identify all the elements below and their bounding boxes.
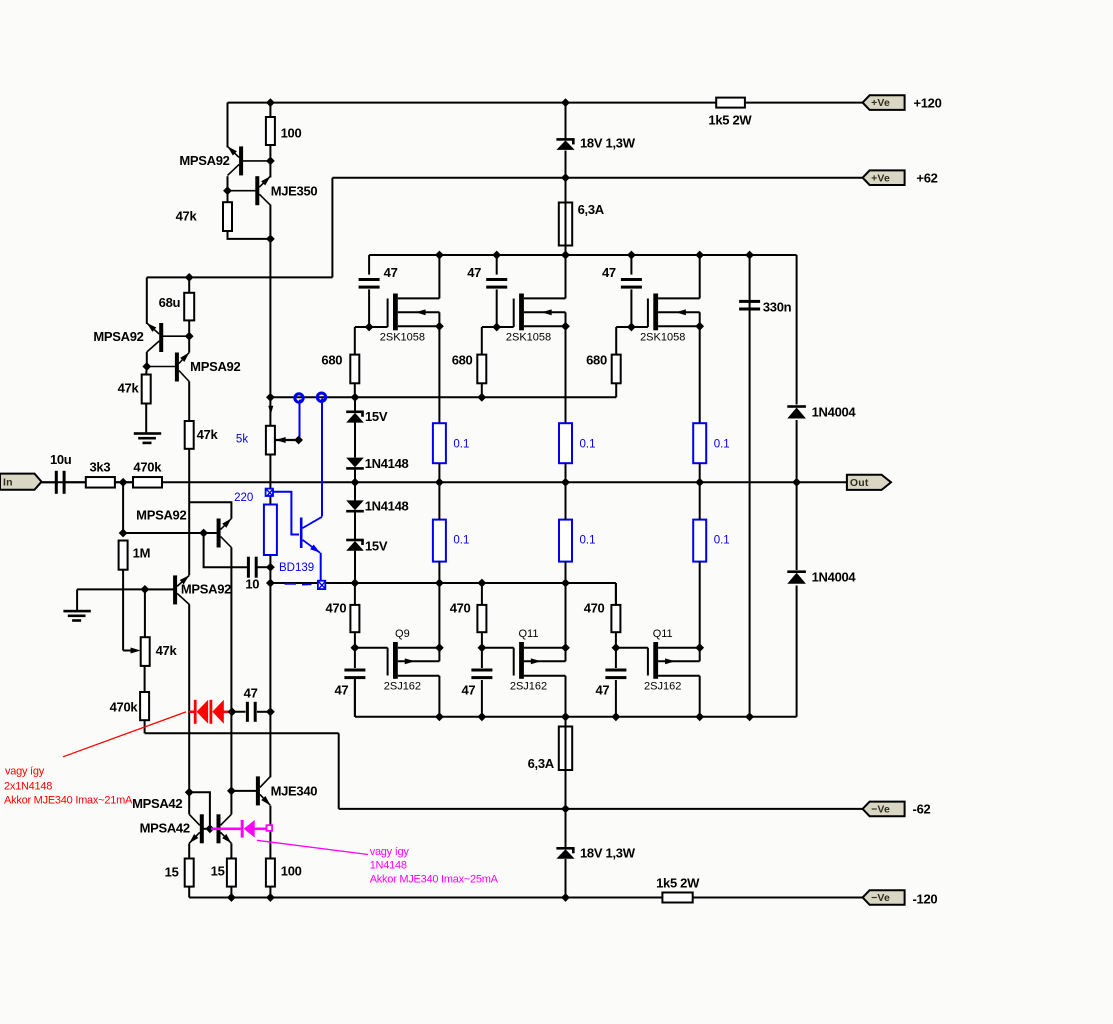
zener 15V lower [346,539,364,551]
svg-text:680: 680 [452,353,473,368]
label 470 no1 [326,601,347,616]
wire 68u top lead [188,277,190,292]
svg-text:MPSA92: MPSA92 [190,359,240,374]
node lower source junction 1 [435,643,444,652]
wire lower fuse to -62 rail [565,770,567,809]
label 15V upper [365,409,388,424]
wire +62 rail to fuse [565,178,567,203]
label MPSA92 Q3a [93,329,143,344]
label 1k5 2W upper [708,113,752,128]
red diode 1N4148 b [210,700,224,724]
red annotation line [63,712,186,757]
resistor 680 no2 [477,355,486,384]
svg-text:47: 47 [384,265,398,280]
svg-text:Akkor MJE340 Imax~25mA: Akkor MJE340 Imax~25mA [370,874,499,886]
svg-text:1N4148: 1N4148 [365,499,409,514]
wire 47k-B column to emitter Q4 [188,449,190,502]
label 47 lower 3 [595,683,609,698]
svg-text:5k: 5k [236,434,248,446]
wire drain up 1 [438,255,440,298]
svg-text:68u: 68u [159,295,181,310]
wire lower fuse lead top [565,717,567,727]
label Q ref 1 [395,628,410,640]
label 330n [763,300,792,315]
node bottom rail 100 [266,893,275,902]
svg-text:47k: 47k [156,643,178,658]
label +120 [913,96,941,111]
capacitor 47 gate lower 2 [471,669,492,680]
wire output-stage top rail [369,254,796,256]
svg-text:470: 470 [326,601,347,616]
label MPSA92 Q4 [136,508,186,523]
svg-text:MJE340: MJE340 [271,784,318,799]
wire bases tie bar [204,828,219,830]
resistor 3k3 [86,477,115,488]
wire cap to drain rail 1 [354,680,356,717]
svg-text:2SK1058: 2SK1058 [380,332,425,344]
fuse 6,3A lower [559,727,572,771]
svg-text:47: 47 [334,683,348,698]
magenta text vagy igy [370,846,410,858]
label 470 no3 [584,601,605,616]
label 47 speedup [244,686,258,701]
wire base branch to 10cap [204,533,248,567]
capacitor 47 gate lower 3 [605,669,626,680]
svg-text:0.1: 0.1 [453,535,469,547]
wire drain up 3 [699,255,701,298]
wire gate cap column 2 upper [496,255,498,275]
label 0.1 upper 3 [714,439,730,451]
svg-text:18V 1,3W: 18V 1,3W [580,136,636,151]
node Q3b base [142,362,151,371]
wire 1M to 47k-pot wiper drop [122,570,124,651]
resistor 0.1 upper 2 [559,423,572,463]
node Q1 base / MJE350 emitter [266,157,275,166]
node front-end rail 68u [185,273,194,282]
resistor 680 no1 [350,355,359,384]
label MJE350 [271,184,318,199]
wire 3k3 to node [115,481,133,483]
wire 100R column top [269,103,271,117]
transistor MPSA92 Q4 [217,516,234,547]
tag +Ve upper [863,95,905,110]
label 15 no1 [165,865,179,880]
transistor MPSA92 Q1 [225,144,270,175]
svg-text:+120: +120 [913,96,941,111]
node MJE350 base [223,186,232,195]
capacitor 330n [739,300,760,311]
svg-text:1N4004: 1N4004 [812,405,857,420]
label 10u [50,452,72,467]
wire MJE350 collector down [269,205,271,398]
svg-text:330n: 330n [763,300,792,315]
wire gate lead upper 3 [616,326,648,328]
label 2SJ162 no2 [510,681,547,693]
magenta text 1N4148 [370,860,407,872]
wire 0.1 lower to rail 3 [699,562,701,583]
wire 470 top lead 1 [354,583,356,605]
transistor 2SJ162 no2 [514,642,566,679]
wire 470 to gate lead 2 [481,632,483,648]
label 6,3A upper [578,202,605,217]
wire 0.1 to out line 1 [438,463,440,482]
node gate lead 1 upper [365,323,374,332]
label 1k5 2W lower [656,876,700,891]
ground symbol front-end [134,432,161,444]
node gate lower 3 [612,643,621,652]
wire cap to gate lead 3 [630,289,632,327]
label 680 no2 [452,353,473,368]
wire out to 0.1 lower 1 [438,482,440,519]
magenta port square [267,825,273,831]
resistor 1k5 2W lower [662,893,692,903]
transistor MPSA42 no1 [187,814,204,845]
wire diode chain 2 [354,423,356,458]
wire source down 1 [438,312,440,423]
svg-text:47: 47 [244,686,258,701]
svg-text:15: 15 [165,865,179,880]
wire gate to cap 1 lower [354,648,356,668]
wire 5k pot bottom to out line [269,455,271,489]
wire lower source up 2 [565,583,567,661]
svg-text:−Ve: −Ve [871,892,890,904]
node gate lower 1 [351,643,360,652]
resistor 47k C [142,375,151,404]
node base line left [119,529,128,538]
resistor 470 no2 [477,605,486,632]
svg-text:+Ve: +Ve [871,172,890,184]
label 470 no2 [450,601,471,616]
resistor 680 no3 [612,355,621,384]
svg-text:-62: -62 [913,802,931,817]
node 1N4004 out line [792,478,801,487]
svg-text:220: 220 [234,492,253,504]
wire 0.1 lower to rail 2 [565,562,567,583]
capacitor 10 compensation [247,557,258,578]
transistor MPSA92 Q5 [145,573,191,604]
svg-text:−Ve: −Ve [871,804,890,816]
node bases tie [206,824,215,833]
svg-text:15V: 15V [365,539,388,554]
wire collector Q4 down [230,548,232,712]
blue wire BD139 base [273,492,299,535]
node diode chain lower rail [351,579,360,588]
tag +Ve lower [863,170,905,185]
wire main out line [41,481,847,483]
node drain rail 3 [695,251,704,260]
node lower rail left [266,579,275,588]
svg-text:MPSA42: MPSA42 [132,796,182,811]
svg-text:vagy így: vagy így [370,846,410,858]
label MPSA92 Q1 [179,153,229,168]
wire collector column xD to MJE340 base node [230,712,232,791]
node 330n lower rail [745,712,754,721]
node lower drain rail 3 [695,712,704,721]
wire MPSA42-1 collector up [188,792,190,814]
label 47k A [176,209,198,224]
resistor 1k5 2W upper [716,98,745,108]
capacitor 47 gate lower 1 [344,669,365,680]
svg-text:2SJ162: 2SJ162 [384,681,421,693]
svg-text:100: 100 [281,864,302,879]
zener 18V lower [556,847,574,859]
wire source down 2 [565,312,567,423]
svg-text:10u: 10u [50,452,72,467]
blue blob 2 [317,393,325,402]
wire 1N4004 column mid1 [796,420,798,570]
red wire diode line [189,710,232,713]
node gate rail left [266,393,275,402]
svg-text:2x1N4148: 2x1N4148 [4,781,52,793]
wire 47k-A bottom to VAS column [228,231,271,239]
label 47k C [118,381,140,396]
capacitor 10u [55,471,66,494]
wire 47k-A column [227,176,229,202]
svg-text:47k: 47k [176,209,198,224]
label +62 [916,171,937,186]
node out line 2 [561,478,570,487]
svg-text:0.1: 0.1 [453,439,469,451]
label MPSA92 Q5 [181,582,231,597]
wire feedback line horizontal [145,732,339,734]
svg-text:0.1: 0.1 [580,439,596,451]
node gate lead 2 upper [492,323,501,332]
wire input node drop to base line [122,482,124,533]
wire 220 bottom to 10cap node [269,555,271,583]
svg-text:47: 47 [602,265,616,280]
wire cap to gate lead 2 [496,289,498,327]
svg-text:3k3: 3k3 [90,460,111,475]
node source junction 3 [695,322,704,331]
wire 5k pot top lead [269,397,271,426]
node source junction 2 [561,322,570,331]
node lower source junction 3 [695,643,704,652]
diode 1N4148 upper [346,458,364,470]
node -120 zener [561,893,570,902]
wire cap to drain rail 2 [481,680,483,717]
blue dashes on rail [285,583,312,586]
transistor 2SJ162 no3 [648,642,700,679]
label 470k input [133,460,162,475]
wire 220 resistor top lead [269,496,271,505]
wire +120 top rail [228,102,863,104]
node out line 1 [435,478,444,487]
wire VAS column to 47cap node [269,583,271,712]
node lower cap2 rail [478,712,487,721]
label 0.1 lower 2 [580,535,596,547]
wire 0.1 to out line 3 [699,463,701,482]
wire In tag to 10u [41,481,55,483]
node diode chain out line [351,478,360,487]
label 2SJ162 no1 [384,681,421,693]
wire front-end top rail [147,276,333,278]
resistor 68u [184,293,194,321]
ground symbol input [63,610,90,622]
svg-text:vagy így: vagy így [5,766,45,778]
capacitor 47 gate upper 3 [621,278,642,289]
node input junction [119,478,128,487]
svg-text:6,3A: 6,3A [528,756,555,771]
transistor 2SK1058 no2 [514,294,566,331]
wire 47k-C top lead [145,367,148,375]
label -62 [913,802,931,817]
wire -120 rail [189,897,862,899]
transistor MJE340 [256,776,273,807]
label 1N4004 upper [812,405,857,420]
wire 18V zener to +62 rail [565,151,567,178]
svg-text:470k: 470k [133,460,162,475]
transistor 2SJ162 no1 [388,642,440,679]
label 68u [159,295,181,310]
label 680 no3 [586,353,607,368]
wire MPSA42-1 emitter down [188,843,190,858]
svg-text:47: 47 [595,683,609,698]
node lower cap3 rail [612,712,621,721]
svg-text:1k5 2W: 1k5 2W [656,876,700,891]
label 0.1 upper 1 [453,439,469,451]
wire source down 3 [699,312,701,423]
wire MPSA92-B collector down to red diode line [188,604,190,792]
wire gate lead lower 3 [616,647,648,649]
resistor 0.1 lower 1 [433,520,446,562]
transistor MPSA42 no2 [217,814,234,845]
label 47 upper 3 [602,265,616,280]
svg-text:47k: 47k [118,381,140,396]
wire Q3b emitter up [188,336,190,352]
zener 15V upper [346,411,364,423]
wire 680 bottom lead 1 [354,383,356,397]
svg-text:0.1: 0.1 [714,535,730,547]
transistor 2SK1058 no3 [648,294,700,331]
svg-text:680: 680 [321,353,342,368]
wire 18V zener no2 to -120 rail [565,859,567,898]
wire gate cap column 3 upper [630,255,632,275]
label 6,3A lower [528,756,555,771]
wire +62 drop to front-end rail [331,178,333,278]
svg-text:10: 10 [245,577,259,592]
wire ground drop input [76,589,78,610]
wire 47k-C to ground [145,404,147,433]
label 10 [245,577,259,592]
wire lower gate bias rail [270,582,616,584]
node ground line base [141,585,150,594]
node 680 rail 2 [477,393,486,402]
wire 47k-pot to 470k [144,666,146,692]
diode 1N4148 lower [346,500,364,512]
wire gate lead upper 1 [355,326,388,328]
label MJE340 driver [271,784,318,799]
blue blob 1 [295,394,303,403]
wire MPSA42-2 collector up [230,791,232,814]
label 220 [234,492,253,504]
node zener top rail [561,98,570,107]
wire 330n column [749,255,751,717]
label 2SJ162 no3 [644,681,681,693]
magenta wire [211,827,267,830]
node red diode cap junction [228,707,237,716]
wire diode chain 5 [354,551,356,583]
transistor MPSA92 Q3b [147,350,192,381]
label MPSA92 Q3b [190,359,240,374]
svg-text:MJE350: MJE350 [271,184,318,199]
label 0.1 lower 1 [453,535,469,547]
resistor 470k feedback [140,692,149,720]
svg-text:470: 470 [450,601,471,616]
label 470k feedback [110,700,139,715]
resistor 100 emitter [266,859,275,887]
label 1M [133,546,150,561]
blue wire collector BD139 [321,402,323,517]
svg-text:Q11: Q11 [519,628,539,640]
label BD139 [279,562,314,574]
blue port 220 top [266,489,273,496]
label 47k pot [156,643,178,658]
svg-text:2SK1058: 2SK1058 [640,332,685,344]
svg-text:2SJ162: 2SJ162 [644,681,681,693]
svg-text:680: 680 [586,353,607,368]
wire gate cap column 1 upper [368,255,370,275]
potentiometer 5k [266,426,299,455]
svg-text:MPSA92: MPSA92 [181,582,231,597]
resistor 470 no3 [611,605,620,632]
wire out to 0.1 lower 3 [699,482,701,519]
resistor 1M [119,541,128,570]
wire emitter branch Q4 [189,502,231,518]
svg-text:1N4148: 1N4148 [365,456,409,471]
wire MPSA42 group top branch [189,792,210,829]
wire Q3b collector to 47k-B [188,382,190,422]
wire main VAS column upper [269,162,271,178]
label 1N4148 lower [365,499,409,514]
svg-text:15: 15 [211,864,225,879]
label 15V lower [365,539,388,554]
label 15 no2 [211,864,225,879]
node bottom rail 15-2 [227,893,236,902]
wire diode chain 3 [354,470,356,501]
wire gate to cap 3 lower [615,648,617,668]
label 100 emitter [281,864,302,879]
wire lower rail corner to 470 no3 [615,583,617,605]
svg-text:1k5 2W: 1k5 2W [708,113,752,128]
wire gate lead lower 2 [482,647,514,649]
svg-text:47k: 47k [197,427,219,442]
wire Q3a collector down [146,352,148,367]
node lower source rail 1 [435,579,444,588]
wire 680 top lead 2 [481,327,483,355]
node lower source rail 2 [561,579,570,588]
magenta annotation line [257,840,368,854]
wire 470 to gate lead 3 [615,632,617,648]
wire 1N4004 column upper [796,255,798,405]
capacitor 47 gate upper 1 [359,278,380,289]
wire cap to drain rail 3 [615,680,617,717]
wire MPSA42-2 emitter down [230,843,232,858]
label 2SK1058 no2 [506,332,551,344]
node 330n rail [745,251,754,260]
wire 1N4004 column mid2 [796,586,798,717]
capacitor 47 speedup [246,702,257,722]
node lower drain rail 2 [561,712,570,721]
svg-text:Q9: Q9 [395,628,410,640]
node out line 3 [695,478,704,487]
label 2SK1058 no1 [380,332,425,344]
node cap column 2 rail [492,251,501,260]
resistor 470k input [133,477,162,488]
blue port BD139 emitter [318,581,325,589]
svg-text:MPSA42: MPSA42 [140,821,190,836]
svg-text:MPSA92: MPSA92 [136,508,186,523]
tag In [0,474,42,490]
